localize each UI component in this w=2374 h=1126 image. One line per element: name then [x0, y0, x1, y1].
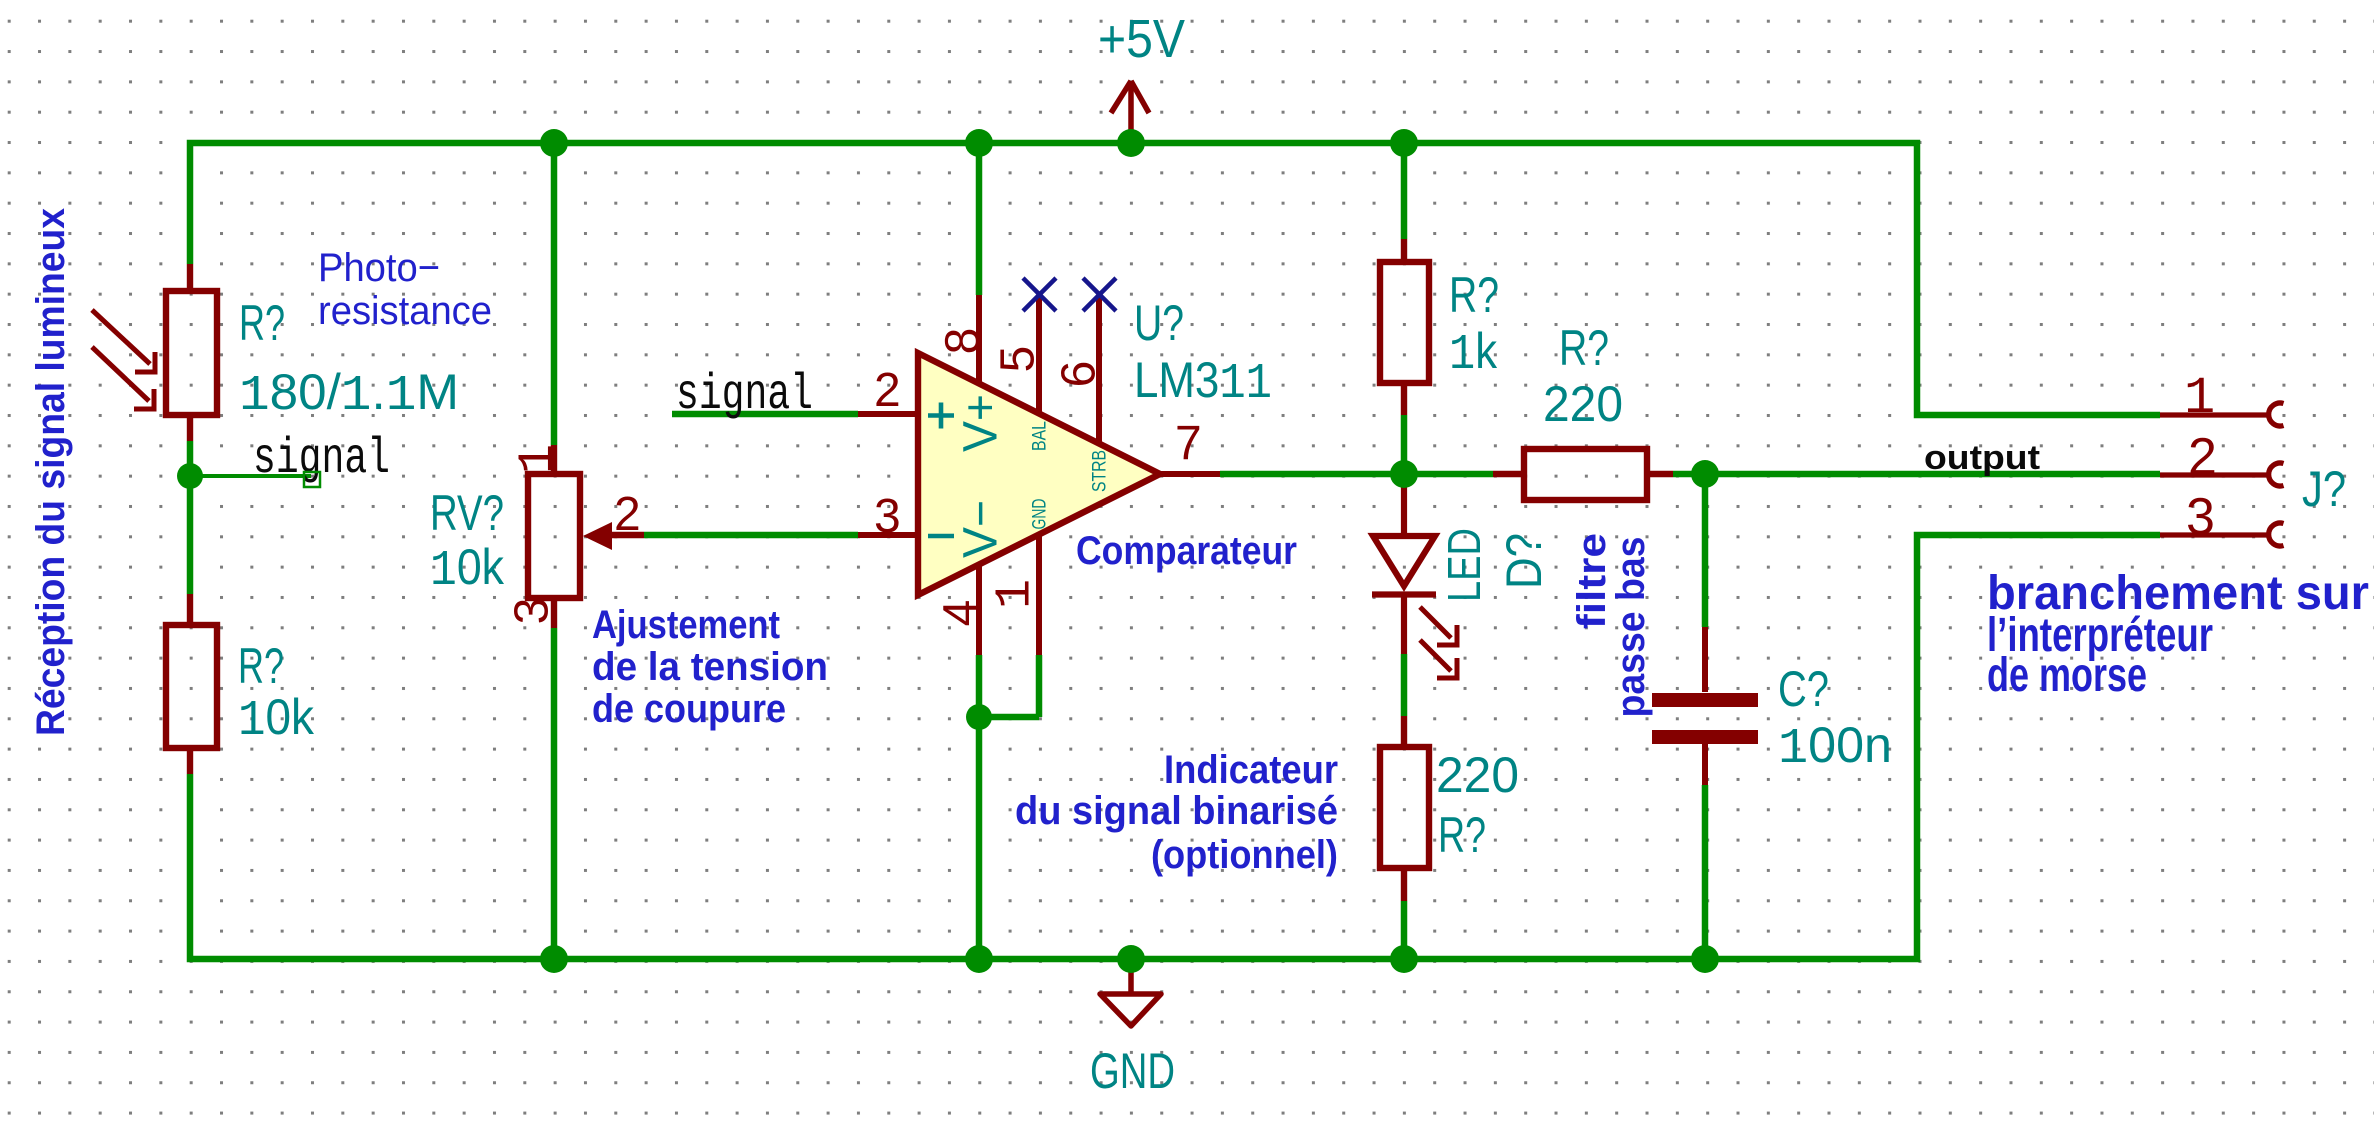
wire signal net to op-amp pin2	[672, 411, 858, 418]
svg-text:signal: signal	[253, 431, 390, 488]
svg-text:1k: 1k	[1449, 323, 1498, 384]
svg-text:R?: R?	[1438, 807, 1486, 863]
wire op-amp pin1 down	[1036, 655, 1043, 717]
svg-text:output: output	[1924, 439, 2040, 477]
svg-text:8: 8	[937, 328, 990, 355]
dangling wire end square	[304, 472, 320, 487]
junction node signal	[177, 463, 203, 489]
svg-text:J?: J?	[2302, 461, 2346, 517]
junction bottom rail / op-amp ground	[965, 945, 993, 973]
wire output node down to capacitor	[1702, 474, 1709, 627]
connector pin 1	[2160, 412, 2270, 417]
svg-text:220: 220	[1543, 376, 1623, 432]
photoresistor R? 180/1.1M	[92, 264, 217, 441]
svg-text:R?: R?	[1449, 267, 1499, 323]
svg-text:Photo−: Photo−	[318, 246, 440, 290]
svg-text:V+: V+	[955, 394, 1008, 452]
op-amp U? LM311 comparator	[858, 278, 1220, 655]
wire rail to R1k top	[1401, 143, 1408, 239]
svg-text:3: 3	[506, 598, 559, 625]
svg-text:V−: V−	[955, 500, 1008, 558]
junction top rail / potentiometer	[540, 129, 568, 157]
pin name + (non-inverting input)	[928, 403, 954, 429]
connector J?	[2160, 403, 2284, 546]
svg-text:de la tension: de la tension	[592, 645, 828, 689]
svg-text:signal: signal	[676, 367, 813, 424]
wire potentiometer bottom to bottom rail	[551, 628, 558, 959]
svg-text:du signal binarisé: du signal binarisé	[1015, 789, 1338, 833]
svg-text:GND: GND	[1090, 1043, 1175, 1099]
resistor R? 220 (vertical, LED series)	[1380, 716, 1429, 901]
resistor R? 10k (lower left)	[166, 594, 217, 774]
junction bottom rail / R220 vertical	[1390, 945, 1418, 973]
svg-text:220: 220	[1436, 747, 1519, 803]
svg-text:U?: U?	[1134, 295, 1184, 351]
junction bottom rail / potentiometer	[540, 945, 568, 973]
wire pin1 across to pin4 wire	[979, 714, 1039, 721]
connector pin 3	[2160, 532, 2270, 537]
wire op-amp pin4 down to bottom rail	[976, 655, 983, 959]
svg-text:1: 1	[2184, 369, 2215, 428]
wire bottom GND rail with left riser and right riser to connector pin3	[190, 535, 2160, 959]
svg-text:4: 4	[935, 600, 988, 627]
wire R220 horizontal to connector pin2	[1673, 471, 2160, 478]
svg-text:2: 2	[614, 488, 641, 541]
no-connect X on pin 6	[1083, 278, 1116, 311]
junction output node at R1k/LED	[1390, 460, 1418, 488]
svg-text:filtre: filtre	[1570, 533, 1614, 629]
junction top rail / op-amp pin8	[965, 129, 993, 157]
svg-text:de coupure: de coupure	[592, 687, 786, 731]
potentiometer RV? 10k	[528, 445, 644, 628]
svg-text:3: 3	[2186, 488, 2215, 546]
svg-text:(optionnel): (optionnel)	[1151, 833, 1338, 877]
svg-text:10k: 10k	[430, 539, 505, 600]
pin name - (inverting input)	[928, 534, 954, 539]
svg-text:1: 1	[988, 579, 1045, 609]
svg-text:R?: R?	[238, 638, 284, 694]
svg-text:BAL: BAL	[1030, 421, 1051, 451]
svg-text:2: 2	[2188, 428, 2217, 486]
svg-text:Indicateur: Indicateur	[1164, 748, 1338, 792]
wire rail to potentiometer top	[551, 143, 558, 445]
connector pin 2	[2160, 472, 2270, 477]
svg-text:10k: 10k	[238, 689, 315, 750]
svg-text:RV?: RV?	[430, 485, 504, 541]
svg-text:7: 7	[1175, 417, 1202, 470]
svg-text:Comparateur: Comparateur	[1076, 529, 1297, 573]
junction bottom rail / capacitor	[1691, 945, 1719, 973]
svg-text:2: 2	[874, 364, 901, 417]
svg-text:100n: 100n	[1778, 717, 1892, 778]
junction output node at capacitor	[1691, 460, 1719, 488]
svg-text:resistance: resistance	[318, 289, 492, 333]
resistor R? 1k	[1380, 239, 1429, 415]
resistor R? 220 (horizontal, low-pass filter)	[1493, 449, 1673, 500]
svg-text:C?: C?	[1778, 661, 1829, 717]
svg-text:1: 1	[511, 444, 568, 474]
svg-text:R?: R?	[1559, 320, 1609, 376]
wire top +5V rail with left drop and right drop to connector pin1	[190, 143, 2160, 415]
svg-text:3: 3	[874, 490, 901, 543]
wire R1k bottom to output node	[1401, 415, 1408, 474]
svg-text:de morse: de morse	[1987, 649, 2147, 702]
wire rail to op-amp pin8	[976, 143, 983, 295]
svg-text:passe bas: passe bas	[1609, 537, 1653, 718]
svg-text:180/1.1M: 180/1.1M	[239, 364, 459, 425]
LED D?	[1372, 474, 1457, 678]
power flag +5V	[1111, 81, 1149, 143]
svg-text:D?: D?	[1496, 533, 1552, 589]
svg-text:GND: GND	[1030, 499, 1051, 530]
no-connect X on pin 5	[1023, 278, 1056, 311]
svg-text:LM311: LM311	[1134, 352, 1272, 413]
wire R220 vertical bottom to rail	[1401, 901, 1408, 959]
svg-text:6: 6	[1053, 361, 1106, 388]
ground GND symbol	[1100, 959, 1161, 1026]
svg-text:LED: LED	[1438, 528, 1490, 602]
wire capacitor bottom to rail	[1702, 785, 1709, 959]
wire pot wiper to op-amp pin3	[644, 532, 858, 539]
junction top rail / R1k	[1390, 129, 1418, 157]
wire LED cathode to R220 vertical	[1401, 654, 1408, 716]
svg-text:Ajustement: Ajustement	[592, 603, 780, 647]
svg-text:+5V: +5V	[1098, 9, 1185, 69]
svg-text:STRB: STRB	[1090, 450, 1111, 492]
junction op-amp pin1/pin4	[966, 704, 992, 730]
svg-text:5: 5	[992, 346, 1045, 373]
junction top rail / +5V symbol	[1117, 129, 1145, 157]
junction bottom rail / GND symbol	[1117, 945, 1145, 973]
svg-text:Réception du signal lumineux: Réception du signal lumineux	[29, 208, 73, 736]
capacitor C? 100n	[1652, 627, 1758, 785]
wire signal stub	[190, 474, 311, 478]
svg-text:R?: R?	[239, 295, 285, 351]
wire op-amp output to R220 horizontal	[1220, 471, 1493, 478]
wire photoresistor bottom to node signal to R10k top	[187, 441, 194, 594]
